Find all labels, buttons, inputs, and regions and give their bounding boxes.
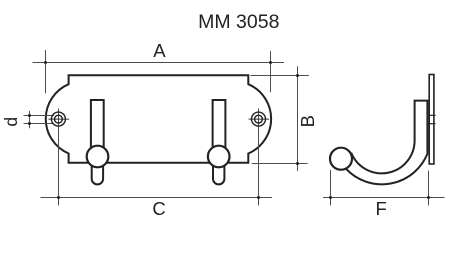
svg-text:B: B [297,115,318,127]
side view plate edge [429,75,434,165]
screw hole right [252,112,266,126]
dimension B line [251,66,309,171]
hook left tip tab [92,152,103,184]
screw hole left crosshair [48,118,69,120]
dimension d dots [28,114,31,125]
side view ball [330,148,352,170]
side view hole section ticks [428,115,436,123]
dimension F dots [329,196,430,199]
plate outline front view [46,75,271,163]
dimension C line [41,109,273,206]
hook left shank [91,100,104,158]
dimension B dots [296,74,299,165]
hook right ball [208,146,230,168]
hook left ball [87,146,109,168]
screw hole right crosshair [249,118,270,120]
dimension A dots [44,61,272,64]
hook right shank [213,100,226,158]
dimension A line [33,50,285,93]
hook right tip tab [213,152,224,184]
side view hook profile [346,101,428,185]
dimension C dots [57,196,260,199]
dimension d lines [24,111,55,128]
svg-text:C: C [152,198,165,219]
svg-text:F: F [375,198,386,219]
svg-text:MM 3058: MM 3058 [198,11,279,33]
svg-text:d: d [1,117,21,127]
dimension F line [323,170,445,206]
svg-text:A: A [153,40,166,61]
screw hole left [51,112,65,126]
